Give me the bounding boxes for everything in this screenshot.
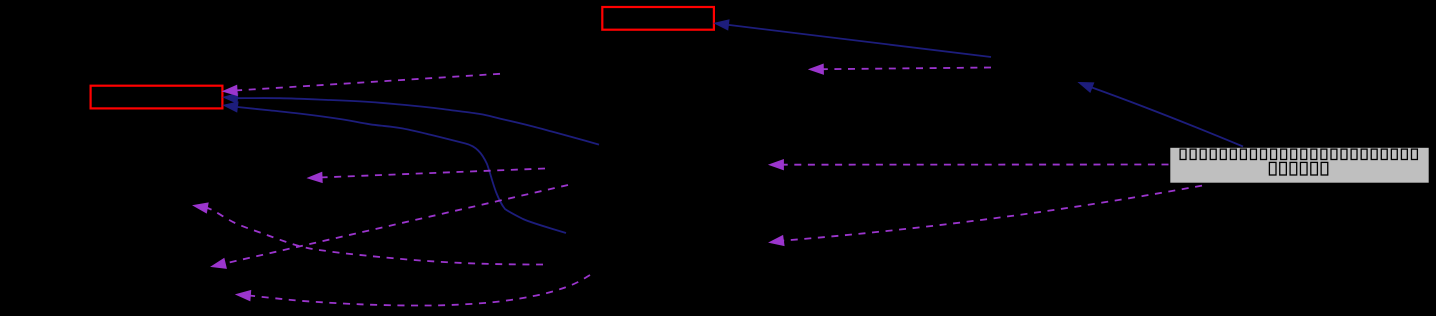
edge M4 dashed usage from gray node (horizontal) xyxy=(769,160,1168,170)
edge M6 dashed usage long diagonal xyxy=(212,185,569,268)
edge B4 solid to left box (lower) xyxy=(224,102,567,233)
label glyph row 1 (24 tofu boxes) xyxy=(1180,149,1417,159)
edge M3 dashed usage top middle xyxy=(809,64,991,74)
edge M2 dashed usage middle-left xyxy=(308,169,545,183)
label glyph row 2 (6 tofu boxes) xyxy=(1269,162,1327,175)
edge B3 solid to left box (upper) xyxy=(224,93,600,144)
edge B2 solid inheritance from gray node xyxy=(1079,83,1243,147)
edge M8 dashed usage bottom curve xyxy=(236,275,590,306)
edge M7 dashed usage curved xyxy=(194,203,544,265)
edge M5 dashed usage from gray node (diagonal) xyxy=(770,186,1203,246)
node box top (red bordered class node) xyxy=(602,7,714,30)
edge B1 solid inheritance to top box xyxy=(715,20,992,57)
node box left (red bordered class node) xyxy=(91,86,223,109)
node box right (gray current node) xyxy=(1170,147,1430,184)
edge M1 dashed usage to left box corner xyxy=(223,74,500,96)
